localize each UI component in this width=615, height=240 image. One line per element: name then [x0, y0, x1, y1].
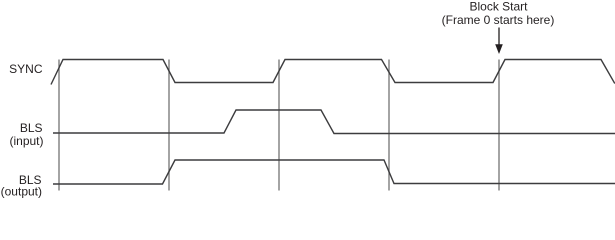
svg-text:Block Start: Block Start: [469, 0, 528, 14]
svg-text:(Frame 0 starts here): (Frame 0 starts here): [442, 13, 555, 27]
svg-text:(input): (input): [9, 134, 43, 148]
svg-text:(output): (output): [1, 185, 42, 199]
svg-text:SYNC: SYNC: [9, 62, 43, 76]
